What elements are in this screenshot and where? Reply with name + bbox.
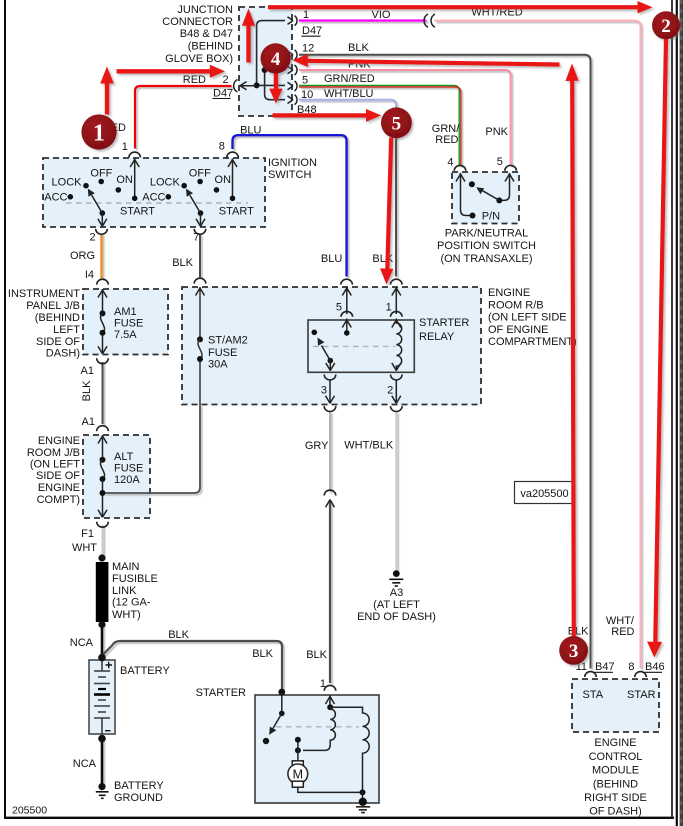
connector pin 1 (VIO) xyxy=(288,16,298,26)
junction connector internal bus D47 side xyxy=(257,21,285,86)
ECM pin 8 B46 cap xyxy=(635,672,647,677)
junction connector B48 & D47 box xyxy=(239,7,292,116)
svg-text:DASH): DASH) xyxy=(46,348,80,360)
P/N switch contacts xyxy=(496,197,502,203)
callout arrow right (near 1) xyxy=(117,69,211,73)
svg-text:3: 3 xyxy=(569,641,579,662)
connector pin 2 (left, D47) xyxy=(234,80,238,93)
svg-text:WHT/BLK: WHT/BLK xyxy=(344,440,394,452)
callout arrow to circle 2 (top) xyxy=(268,5,639,9)
svg-text:WHT/BLU: WHT/BLU xyxy=(324,88,374,100)
callout circle 4 xyxy=(261,43,291,73)
svg-text:IGNITION: IGNITION xyxy=(268,157,317,169)
svg-text:ON: ON xyxy=(116,174,133,186)
callout line 2 down right side xyxy=(655,38,666,642)
svg-text:RED: RED xyxy=(183,74,206,86)
svg-text:BLK: BLK xyxy=(172,257,193,269)
svg-text:STAR: STAR xyxy=(627,689,656,701)
wire GRN/RED: junction pin 5 to park/neutral switch pin 4 xyxy=(299,86,459,167)
wire RED: ignition pin 1 to junction D47 pin 2 xyxy=(135,86,232,149)
wire BLK: inline connector to starter pin 1 xyxy=(329,500,331,684)
starter relay switch xyxy=(346,319,348,333)
svg-text:GLOVE BOX): GLOVE BOX) xyxy=(165,53,233,65)
page frame right inner border xyxy=(671,0,673,819)
svg-text:ST/AM2: ST/AM2 xyxy=(208,335,248,347)
node: bus junction pin 7 xyxy=(262,67,268,73)
wire PNK: junction pin 7 to park/neutral switch pin 5 xyxy=(299,70,511,166)
P/N switch pin 4 internal lead xyxy=(461,173,471,216)
svg-text:(ON LEFT SIDE: (ON LEFT SIDE xyxy=(488,312,567,324)
ignition switch pin 1 entry cap xyxy=(129,152,141,157)
wire BLK: ignition pin 7 to ST/AM2 fuse xyxy=(199,234,201,278)
callout arrow right to circle 5 xyxy=(273,113,367,117)
svg-text:LINK: LINK xyxy=(112,585,137,597)
svg-text:VIO: VIO xyxy=(372,9,391,21)
svg-text:1: 1 xyxy=(320,678,326,690)
svg-text:GROUND: GROUND xyxy=(114,792,163,804)
ignition switch contact wire pin 1 xyxy=(134,159,136,199)
svg-text:B47: B47 xyxy=(595,661,615,673)
svg-text:B46: B46 xyxy=(645,661,665,673)
svg-text:PNK: PNK xyxy=(485,126,508,138)
starter hold-in coil xyxy=(330,707,369,792)
svg-text:FUSE: FUSE xyxy=(114,318,143,330)
ignition switch 2 exit to pin 7 xyxy=(200,213,202,226)
svg-text:ACC: ACC xyxy=(142,191,165,203)
svg-text:10: 10 xyxy=(301,89,313,101)
svg-text:PANEL J/B: PANEL J/B xyxy=(26,300,80,312)
svg-text:SIDE OF: SIDE OF xyxy=(36,470,80,482)
svg-text:5: 5 xyxy=(392,114,402,135)
svg-text:4: 4 xyxy=(271,49,281,70)
svg-text:BLK: BLK xyxy=(252,648,273,660)
ignition switch 2 contacts xyxy=(197,179,203,185)
connector pin 12 (BLK) xyxy=(288,50,298,60)
engine control module box xyxy=(572,679,659,732)
svg-text:SIDE OF: SIDE OF xyxy=(36,336,80,348)
battery plates xyxy=(101,660,103,671)
svg-text:1: 1 xyxy=(93,121,105,147)
svg-text:NCA: NCA xyxy=(73,758,97,770)
BLU entry cap into R/B xyxy=(341,279,353,284)
starter relay box xyxy=(308,320,414,372)
svg-text:(BEHIND: (BEHIND xyxy=(35,312,80,324)
svg-text:FUSE: FUSE xyxy=(114,463,143,475)
ECM pin 11 B47 cap xyxy=(585,672,597,677)
relay pin 3 exit xyxy=(324,375,336,380)
va205500 label box xyxy=(515,482,575,504)
svg-text:LOCK: LOCK xyxy=(52,176,83,188)
svg-text:I4: I4 xyxy=(85,269,94,281)
callout arrow 4 up xyxy=(246,26,250,63)
F1 exit cap xyxy=(97,522,109,527)
starter relay coil xyxy=(396,319,401,372)
svg-text:ENGINE: ENGINE xyxy=(38,482,80,494)
svg-text:RED: RED xyxy=(435,134,458,146)
inline connector on GRY/BLK wire xyxy=(324,490,336,495)
junction connector internal row pin 7 xyxy=(265,69,285,71)
connector pin 10 (WHT/BLU) xyxy=(288,95,298,105)
connector pin 7 (PNK) xyxy=(288,65,298,75)
svg-text:START: START xyxy=(219,205,254,217)
junction connector internal row pin 5 xyxy=(257,84,285,86)
svg-text:BLU: BLU xyxy=(240,125,261,137)
svg-text:OFF: OFF xyxy=(90,167,112,179)
svg-text:A3: A3 xyxy=(390,587,403,599)
svg-text:D47: D47 xyxy=(302,25,322,37)
svg-text:COMPARTMENT): COMPARTMENT) xyxy=(488,336,577,348)
svg-text:120A: 120A xyxy=(114,474,140,486)
svg-text:OFF: OFF xyxy=(189,167,211,179)
svg-text:LOCK: LOCK xyxy=(150,176,181,188)
svg-text:5: 5 xyxy=(497,156,503,168)
svg-text:ON: ON xyxy=(215,174,232,186)
svg-text:ORG: ORG xyxy=(70,250,95,262)
svg-text:OF ENGINE: OF ENGINE xyxy=(488,324,549,336)
svg-text:BLK: BLK xyxy=(372,253,393,265)
svg-text:7: 7 xyxy=(193,232,199,244)
svg-text:RELAY: RELAY xyxy=(419,331,455,343)
ignition switch 2 contact wire pin 8 xyxy=(232,159,234,199)
svg-text:(ON LEFT: (ON LEFT xyxy=(30,459,80,471)
callout circle 3 xyxy=(559,636,588,665)
inline connector on VIO/WHT-RED xyxy=(424,14,435,27)
svg-text:STA: STA xyxy=(583,689,604,701)
ignition pin 2 exit cap xyxy=(96,229,108,234)
wire BLK: battery positive to starter xyxy=(103,641,282,690)
battery terminals xyxy=(98,654,106,662)
ignition switch 1 lever xyxy=(92,195,103,213)
callout arrow 1 up xyxy=(105,83,109,115)
ignition pin 7 exit cap xyxy=(194,229,206,234)
battery plus sign xyxy=(106,662,113,669)
svg-text:STARTER: STARTER xyxy=(419,317,469,329)
svg-text:2: 2 xyxy=(89,232,95,244)
svg-text:BLK: BLK xyxy=(168,629,189,641)
main fusible link xyxy=(98,554,105,561)
svg-text:ACC: ACC xyxy=(44,191,67,203)
callout arrow left to circle 4 xyxy=(308,61,560,65)
starter mechanical link (dashed) xyxy=(276,726,359,728)
callout arrow 4 down xyxy=(274,72,278,90)
starter pull-in coil xyxy=(303,707,335,750)
svg-text:ROOM J/B: ROOM J/B xyxy=(27,447,80,459)
svg-text:5: 5 xyxy=(336,302,342,314)
ignition switch pin 8 entry cap xyxy=(227,152,239,157)
wire GRY: starter relay pin 3 to inline connector xyxy=(329,412,331,493)
wire WHT/BLK: starter relay pin 2 to ground A3 xyxy=(395,412,397,571)
starter pin 1 internal lead xyxy=(329,696,331,708)
starter box xyxy=(255,695,379,803)
fuse ST/AM2 30A xyxy=(199,287,201,405)
starter solenoid switch xyxy=(278,689,285,696)
starter case ground xyxy=(359,798,367,806)
svg-text:GRY: GRY xyxy=(305,440,329,452)
svg-text:JUNCTION: JUNCTION xyxy=(177,4,233,16)
svg-text:(ON TRANSAXLE): (ON TRANSAXLE) xyxy=(440,253,532,265)
wire VIO: junction pin 1 to inline connector xyxy=(299,19,427,21)
svg-text:(12 GA-: (12 GA- xyxy=(112,597,151,609)
svg-text:D47: D47 xyxy=(213,88,233,100)
svg-text:(BEHIND: (BEHIND xyxy=(188,41,233,53)
P/N switch lever xyxy=(483,191,500,201)
svg-text:CONNECTOR: CONNECTOR xyxy=(162,16,233,28)
callout line 5 down xyxy=(387,138,391,270)
svg-text:12: 12 xyxy=(302,42,314,54)
svg-text:MAIN: MAIN xyxy=(112,561,140,573)
battery minus sign xyxy=(105,730,111,732)
window edge strip xyxy=(680,0,683,826)
svg-text:STARTER: STARTER xyxy=(196,687,246,699)
svg-text:8: 8 xyxy=(219,141,225,153)
svg-text:A1: A1 xyxy=(81,365,94,377)
svg-text:P/N: P/N xyxy=(482,211,500,223)
svg-text:ROOM R/B: ROOM R/B xyxy=(488,299,544,311)
svg-text:OF DASH): OF DASH) xyxy=(589,806,642,818)
fuse ALT 120A xyxy=(102,435,104,518)
svg-text:5: 5 xyxy=(302,74,308,86)
svg-text:NCA: NCA xyxy=(70,637,94,649)
callout circle 2 xyxy=(652,11,680,39)
ignition switch box xyxy=(43,158,265,227)
BLK entry cap into R/B (relay pin 1 wire) xyxy=(391,279,403,284)
node: ALT fuse to ST/AM2 branch xyxy=(100,490,106,496)
relay pin 5 lead xyxy=(346,287,348,314)
svg-text:va205500: va205500 xyxy=(520,488,568,500)
svg-text:3: 3 xyxy=(321,385,327,397)
callout circle 5 xyxy=(381,107,412,138)
wire BLK: A1 to A1 xyxy=(102,362,104,424)
svg-text:ALT: ALT xyxy=(114,451,134,463)
svg-text:A1: A1 xyxy=(82,416,95,428)
svg-text:8: 8 xyxy=(628,661,634,673)
ignition switch 2 lever xyxy=(190,195,201,213)
relay pin 2 exit xyxy=(391,375,403,380)
svg-text:ENGINE: ENGINE xyxy=(38,435,80,447)
svg-text:BATTERY: BATTERY xyxy=(120,665,170,677)
page frame bottom border xyxy=(4,817,674,819)
relay mechanical link (dashed) xyxy=(313,345,395,347)
svg-text:RED: RED xyxy=(611,626,634,638)
svg-text:ENGINE: ENGINE xyxy=(488,287,530,299)
A1 entry cap engine room J/B xyxy=(97,426,109,431)
wire ORG: ignition pin 2 to I4 xyxy=(100,234,102,279)
wire WHT/BLU: junction pin 10 toward starter relay pin 1 xyxy=(299,100,396,136)
svg-text:WHT/: WHT/ xyxy=(606,615,635,627)
svg-text:1: 1 xyxy=(303,9,309,21)
svg-text:MODULE: MODULE xyxy=(592,765,639,777)
svg-text:2: 2 xyxy=(387,385,393,397)
svg-text:BLK: BLK xyxy=(81,380,93,401)
svg-text:START: START xyxy=(120,205,155,217)
svg-text:1: 1 xyxy=(386,302,392,314)
svg-text:POSITION SWITCH: POSITION SWITCH xyxy=(437,240,536,252)
svg-text:(BEHIND: (BEHIND xyxy=(593,778,638,790)
wire BLK: junction pin 12 to ECM pin 11 B47 xyxy=(299,55,591,669)
svg-text:ENGINE: ENGINE xyxy=(594,737,636,749)
instrument panel J/B box xyxy=(83,289,168,355)
connector pin 5 (GRN/RED) xyxy=(288,81,298,91)
callout line 3 up xyxy=(572,81,574,637)
svg-text:BATTERY: BATTERY xyxy=(114,780,164,792)
svg-text:2: 2 xyxy=(222,74,228,86)
A1 exit cap xyxy=(97,358,109,363)
wire NCA: fusible link to battery positive xyxy=(101,625,104,656)
page frame left border xyxy=(4,0,6,819)
svg-text:(AT LEFT: (AT LEFT xyxy=(373,599,420,611)
starter motor M xyxy=(297,750,299,760)
ST/AM2 entry cap xyxy=(194,278,206,283)
ignition switch mechanical link (dashed) xyxy=(66,202,248,204)
svg-text:30A: 30A xyxy=(208,359,228,371)
svg-text:SWITCH: SWITCH xyxy=(268,169,311,181)
fuse AM1 7.5A xyxy=(102,289,104,354)
svg-text:M: M xyxy=(293,767,303,781)
battery ground xyxy=(98,783,105,790)
wire WHT/RED: inline connector to ECM pin 8 B46 xyxy=(435,21,641,669)
relay pin 1 lead xyxy=(395,287,397,314)
junction connector internal bus B48 side xyxy=(265,53,285,100)
svg-text:COMPT): COMPT) xyxy=(37,494,80,506)
svg-text:1: 1 xyxy=(122,141,128,153)
ground A3 xyxy=(393,570,400,577)
starter motor to ground wire xyxy=(298,787,363,792)
svg-text:END OF DASH): END OF DASH) xyxy=(357,611,436,623)
P/N switch pin 4 entry cap xyxy=(454,165,466,170)
svg-text:2: 2 xyxy=(661,16,671,37)
ignition switch 1 exit to pin 2 xyxy=(101,213,103,226)
wire WHT: F1 to main fusible link xyxy=(102,525,104,557)
engine room J/B box xyxy=(83,435,150,518)
page frame right outer border xyxy=(676,0,678,826)
starter pin 1 cap xyxy=(324,685,336,690)
svg-text:205500: 205500 xyxy=(12,805,47,817)
wire NCA: battery negative to battery ground xyxy=(101,739,104,786)
wire BLK: continuation down to starter relay pin 1 xyxy=(395,130,397,277)
svg-text:BLK: BLK xyxy=(348,42,369,54)
svg-text:B48 & D47: B48 & D47 xyxy=(180,28,233,40)
svg-text:INSTRUMENT: INSTRUMENT xyxy=(8,288,80,300)
svg-text:LEFT: LEFT xyxy=(53,324,80,336)
svg-text:F1: F1 xyxy=(81,528,94,540)
svg-text:WHT: WHT xyxy=(72,542,97,554)
svg-text:CONTROL: CONTROL xyxy=(589,751,643,763)
svg-text:PARK/NEUTRAL: PARK/NEUTRAL xyxy=(445,228,529,240)
svg-text:FUSIBLE: FUSIBLE xyxy=(112,573,158,585)
I4 entry cap xyxy=(97,279,109,284)
wire: ST/AM2 fuse down to ALT fuse node xyxy=(104,405,200,494)
callout circle 1 xyxy=(81,114,116,149)
P/N switch pin 5 internal lead xyxy=(501,173,510,200)
svg-text:AM1: AM1 xyxy=(114,306,137,318)
svg-text:BLK: BLK xyxy=(306,649,327,661)
node: bus junction pin2/pin5 xyxy=(254,82,260,88)
svg-text:4: 4 xyxy=(447,157,453,169)
svg-text:BLK: BLK xyxy=(568,626,589,638)
svg-text:WHT): WHT) xyxy=(112,609,141,621)
svg-text:GRN/RED: GRN/RED xyxy=(324,73,375,85)
park/neutral position switch box xyxy=(452,172,519,224)
svg-text:BLU: BLU xyxy=(321,253,342,265)
engine room R/B box xyxy=(182,287,481,405)
svg-text:7.5A: 7.5A xyxy=(114,329,137,341)
battery box xyxy=(89,660,115,734)
ignition switch 1 contacts xyxy=(98,179,104,185)
svg-text:FUSE: FUSE xyxy=(208,347,237,359)
wire BLU: ignition pin 8 to starter relay pin 5 xyxy=(233,135,347,276)
svg-text:RIGHT SIDE: RIGHT SIDE xyxy=(584,792,647,804)
P/N switch pin 5 entry cap xyxy=(505,165,517,170)
